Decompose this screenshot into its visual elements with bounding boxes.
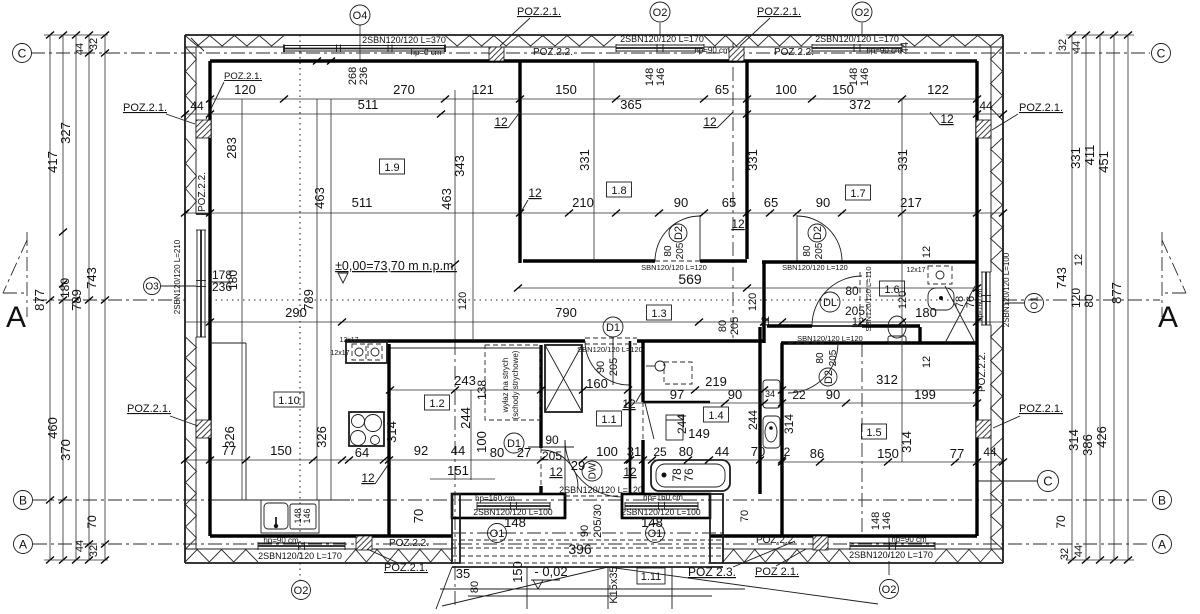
window W2 top: [616, 44, 704, 46]
svg-text:569: 569: [678, 271, 702, 287]
step diagonals: [442, 567, 608, 606]
porch recessed wall band left segment: [452, 494, 565, 518]
svg-text:12: 12: [731, 217, 745, 231]
svg-text:314: 314: [782, 414, 796, 434]
svg-text:205: 205: [675, 242, 686, 259]
svg-text:343: 343: [452, 155, 467, 177]
svg-text:80: 80: [469, 581, 481, 593]
axis C horizontal: [31, 52, 1150, 54]
svg-text:12x17: 12x17: [330, 350, 349, 357]
svg-text:hp=90 cm: hp=90 cm: [866, 46, 902, 55]
room label 1.7: [846, 185, 871, 200]
svg-text:wyłaz na strych: wyłaz na strych: [501, 358, 510, 414]
section line A-A: [33, 299, 185, 301]
svg-text:32: 32: [1057, 39, 1069, 51]
svg-text:1.4: 1.4: [708, 410, 723, 422]
window W4 left 2SBN120/120 L=210: [196, 230, 198, 337]
C leader circle right: [978, 480, 1037, 482]
svg-text:65: 65: [715, 82, 729, 97]
svg-text:32: 32: [88, 545, 100, 557]
svg-text:65: 65: [764, 195, 778, 210]
svg-text:31: 31: [627, 444, 641, 459]
svg-text:35: 35: [456, 566, 470, 581]
svg-text:SBN120/120 L=120: SBN120/120 L=120: [577, 345, 643, 354]
dim row 569: [518, 287, 977, 289]
svg-text:O2: O2: [294, 585, 309, 597]
svg-text:417: 417: [45, 151, 60, 173]
svg-text:77: 77: [950, 446, 964, 461]
svg-text:877: 877: [1109, 282, 1124, 304]
svg-text:90: 90: [595, 361, 607, 373]
svg-text:312: 312: [876, 372, 898, 387]
svg-text:POZ.2.2.: POZ.2.2.: [197, 172, 208, 212]
svg-text:A: A: [19, 537, 27, 551]
stove: [349, 412, 384, 446]
svg-text:80: 80: [815, 352, 826, 364]
svg-text:B: B: [19, 493, 27, 507]
flue block WC: [928, 266, 952, 284]
outer wall right: insulation hatch: [991, 47, 1003, 120]
outer wall left: inner face: [208, 61, 211, 536]
svg-text:12x17: 12x17: [906, 267, 925, 274]
svg-text:789: 789: [69, 289, 84, 311]
svg-text:77: 77: [222, 443, 236, 458]
svg-text:205: 205: [828, 349, 839, 366]
svg-text:150: 150: [510, 561, 525, 583]
svg-text:180: 180: [915, 305, 937, 320]
svg-text:12: 12: [760, 316, 772, 328]
svg-text:160: 160: [586, 376, 608, 391]
left dimension column lines: [49, 35, 51, 560]
axis line vertical x=455: [454, 90, 456, 341]
svg-text:76: 76: [965, 296, 977, 308]
window W1 top 2SBN120/120 L=370: [284, 45, 445, 47]
svg-text:80: 80: [845, 284, 859, 298]
svg-text:314: 314: [1066, 429, 1081, 451]
room 1.5 top wall: [781, 341, 977, 344]
svg-text:2: 2: [784, 445, 791, 459]
svg-text:D2: D2: [823, 370, 835, 384]
svg-text:70: 70: [739, 510, 751, 522]
dim 151: [430, 478, 495, 480]
svg-text:205/30: 205/30: [592, 504, 604, 538]
svg-text:44: 44: [983, 445, 997, 459]
svg-text:511: 511: [358, 97, 379, 112]
wardrobe crossed box: [545, 345, 582, 412]
svg-text:80: 80: [802, 245, 813, 257]
step verticals: [526, 567, 528, 609]
window W6 bottom left: [258, 542, 345, 544]
svg-text:POZ.2.1.: POZ.2.1.: [123, 102, 167, 114]
flue block kitchen: [346, 341, 387, 363]
lintel block POZ.2.1 right lower: [976, 420, 991, 438]
corridor top wall: [523, 259, 655, 262]
dim row y403: [628, 402, 977, 404]
axis A horizontal: [33, 543, 1150, 545]
O1 circle right: [646, 524, 665, 543]
D1 corridor label: [603, 317, 623, 337]
svg-text:C: C: [18, 46, 27, 60]
svg-text:22: 22: [792, 388, 806, 402]
svg-text:POZ.2.1.: POZ.2.1.: [1019, 403, 1063, 415]
svg-text:POZ.2.1.: POZ.2.1.: [757, 6, 801, 18]
svg-text:1.3: 1.3: [651, 308, 666, 320]
wall between rooms 1.8 and 1.7: [745, 61, 748, 259]
outer wall top: outer face: [185, 34, 1003, 36]
axis line vertical x=733: [732, 42, 734, 340]
bathroom left wall: [641, 341, 644, 402]
svg-text:12: 12: [703, 115, 717, 129]
hidden wall lines across niche: [452, 539, 723, 541]
svg-text:463: 463: [312, 187, 327, 209]
svg-text:POZ.2.1.: POZ.2.1.: [517, 6, 561, 18]
svg-text:POZ.2.1.: POZ.2.1.: [127, 403, 171, 415]
svg-text:90: 90: [674, 195, 688, 210]
svg-text:34: 34: [765, 389, 775, 399]
door D2 room 1.5 arc: [788, 343, 838, 393]
porch recessed wall band right segment: [622, 494, 710, 518]
svg-text:372: 372: [849, 97, 871, 112]
svg-text:32: 32: [88, 38, 100, 50]
svg-text:SBN120/120 L=120: SBN120/120 L=120: [797, 334, 863, 343]
svg-text:205: 205: [814, 242, 825, 259]
svg-text:2SBN120/120 L=170: 2SBN120/120 L=170: [258, 551, 342, 561]
svg-text:1.10: 1.10: [278, 395, 299, 407]
lintel block POZ.2.1 left lower: [196, 420, 211, 438]
porch side wall left: [452, 494, 460, 563]
wall between rooms 1.9 and 1.8: [518, 61, 521, 263]
svg-text:44: 44: [1071, 41, 1083, 53]
svg-text:244: 244: [675, 414, 689, 434]
svg-text:44: 44: [74, 43, 86, 55]
svg-text:POZ.2.2.: POZ.2.2.: [389, 538, 429, 549]
svg-text:463: 463: [439, 188, 454, 210]
svg-text:POZ.2.1.: POZ.2.1.: [224, 71, 262, 82]
svg-text:243: 243: [454, 373, 476, 388]
axis O3 left: [144, 278, 161, 295]
svg-text:A: A: [1158, 537, 1166, 551]
svg-text:1.8: 1.8: [611, 185, 626, 197]
svg-text:326: 326: [314, 426, 329, 448]
O1 circle left: [488, 524, 507, 543]
porch entrance door opening: [564, 494, 567, 518]
svg-text:331: 331: [577, 149, 592, 171]
svg-text:25: 25: [653, 445, 667, 459]
kitchen counter bottom band: [210, 499, 350, 501]
door D2 label 1.7: [808, 224, 826, 242]
WC top wall: [762, 260, 977, 263]
svg-text:hp=0 cm: hp=0 cm: [411, 48, 442, 57]
svg-text:12: 12: [1073, 254, 1085, 266]
svg-text:SBN120/120 L=120: SBN120/120 L=120: [782, 263, 848, 272]
svg-text:D1: D1: [507, 438, 521, 450]
shaft cross bracing: [945, 286, 975, 343]
svg-text:138: 138: [475, 380, 489, 400]
svg-text:12: 12: [921, 356, 933, 368]
outer wall right: inner face: [975, 61, 978, 536]
svg-text:460: 460: [45, 417, 60, 439]
washbasin bathroom: [763, 416, 780, 448]
wall right of stairs: [539, 345, 542, 448]
door D1 to room 1.1: arc: [585, 341, 629, 385]
svg-text:426: 426: [1094, 426, 1109, 448]
room 1.1 right wall: [629, 341, 632, 494]
axis B horizontal: [33, 499, 1150, 501]
svg-text:1.2: 1.2: [429, 398, 444, 410]
axis O2 bottom, vertical dotted line: [299, 35, 301, 580]
svg-text:POZ.2.1.: POZ.2.1.: [384, 562, 428, 574]
svg-text:149: 149: [688, 426, 710, 441]
room 1.11 label: [637, 568, 665, 584]
svg-text:POZ.2.2.: POZ.2.2.: [756, 535, 796, 546]
svg-text:O2: O2: [882, 584, 897, 596]
svg-text:- 0,02: - 0,02: [534, 564, 567, 579]
window W7 bottom right: [850, 542, 935, 544]
door DL label: [820, 292, 840, 312]
svg-text:120: 120: [747, 293, 759, 311]
svg-text:±0,00=73,70 m n.p.m.: ±0,00=73,70 m n.p.m.: [335, 259, 457, 273]
dim row y460 kitchen: [185, 459, 628, 461]
room label 1.3: [647, 305, 672, 320]
axis O1 right: [1005, 302, 1024, 304]
svg-text:DL: DL: [823, 297, 837, 309]
svg-text:151: 151: [447, 463, 469, 478]
svg-text:314: 314: [384, 421, 399, 443]
svg-text:90: 90: [579, 525, 591, 537]
svg-text:80: 80: [717, 320, 729, 332]
DW label: [582, 461, 602, 481]
svg-text:1.9: 1.9: [384, 162, 399, 174]
lintel block POZ.2.1 bottom-left: [356, 536, 372, 550]
window W5 right 2SBN120/120 L=100: [981, 272, 983, 325]
svg-text:743: 743: [84, 267, 99, 289]
svg-text:100: 100: [775, 82, 797, 97]
door arc hall: [541, 450, 578, 487]
svg-text:O2: O2: [855, 7, 870, 19]
svg-text:44: 44: [899, 42, 911, 54]
svg-text:70: 70: [411, 509, 426, 523]
svg-text:120: 120: [1069, 288, 1083, 308]
svg-text:386: 386: [1080, 434, 1095, 456]
svg-text:236: 236: [358, 67, 370, 85]
svg-text:C: C: [1043, 474, 1052, 489]
svg-text:2SBN120/120 L=370: 2SBN120/120 L=370: [362, 35, 446, 45]
svg-text:hp=160 cm: hp=160 cm: [643, 493, 683, 502]
axis O4 top: [359, 25, 361, 61]
svg-text:A: A: [1158, 301, 1178, 334]
svg-text:120: 120: [234, 82, 256, 97]
stairs to attic dashed box: [485, 345, 540, 420]
room label 1.8: [607, 182, 632, 197]
svg-text:POZ 2.3.: POZ 2.3.: [688, 565, 736, 579]
svg-text:B: B: [1158, 493, 1166, 507]
axis line vertical x=862 lower: [861, 343, 863, 536]
corridor bottom wall: [345, 339, 585, 342]
svg-text:70: 70: [751, 444, 765, 459]
axis O2 bottom right: [888, 536, 890, 578]
dim row mid y213: [185, 212, 1003, 214]
porch window P1: [477, 502, 550, 504]
svg-text:hp=90 cm: hp=90 cm: [263, 536, 299, 545]
svg-text:O3: O3: [145, 282, 159, 293]
svg-text:331: 331: [1068, 147, 1083, 169]
room label 1.9: [380, 159, 405, 174]
room label 1.2: [425, 395, 450, 410]
left column ticks: [46, 32, 54, 39]
lintel block POZ.2.1 right upper: [976, 120, 991, 138]
svg-text:O2: O2: [653, 7, 668, 19]
dim row 1.5 y462: [782, 461, 1003, 463]
svg-text:396: 396: [568, 541, 592, 557]
svg-text:219: 219: [705, 374, 727, 389]
svg-text:146: 146: [302, 508, 312, 523]
svg-text:148: 148: [641, 515, 663, 530]
svg-text:44: 44: [1073, 545, 1085, 557]
svg-text:12: 12: [361, 471, 375, 485]
svg-text:2SBN120/120 L=170: 2SBN120/120 L=170: [815, 34, 899, 44]
svg-text:451: 451: [1096, 151, 1111, 173]
svg-text:1.1: 1.1: [601, 414, 616, 426]
svg-text:121: 121: [472, 82, 494, 97]
svg-text:44: 44: [715, 444, 729, 459]
washbasin WC: [928, 288, 954, 310]
section triangle left: [3, 240, 27, 293]
svg-text:32: 32: [1059, 548, 1071, 560]
svg-text:90: 90: [816, 195, 830, 210]
room label 1.1: [597, 411, 622, 426]
svg-text:146: 146: [655, 68, 667, 86]
svg-text:283: 283: [224, 137, 239, 159]
svg-text:12: 12: [940, 112, 954, 126]
svg-text:80: 80: [490, 445, 504, 460]
svg-text:2SBN120/120 L=170: 2SBN120/120 L=170: [849, 550, 933, 560]
dim row y322: [185, 321, 1003, 323]
1.2 top wall second line: [390, 347, 541, 349]
steps lines: [440, 588, 745, 590]
room label 1.6: [880, 281, 905, 296]
svg-text:743: 743: [1054, 267, 1069, 289]
svg-text:POZ.2.1.: POZ.2.1.: [1019, 102, 1063, 114]
svg-text:80: 80: [679, 444, 693, 459]
svg-text:210: 210: [572, 195, 594, 210]
svg-text:2SBN120/120 L=170: 2SBN120/120 L=170: [620, 34, 704, 44]
svg-text:1.5: 1.5: [866, 427, 881, 439]
svg-text:80: 80: [1082, 294, 1096, 308]
svg-text:12: 12: [622, 397, 636, 411]
lintel block POZ.2.1 left upper: [196, 120, 211, 138]
svg-text:A: A: [6, 301, 26, 334]
outer wall top: inner face: [210, 59, 977, 62]
svg-text:90: 90: [728, 387, 742, 402]
door D2 label 1.8: [669, 224, 687, 242]
svg-text:C: C: [1157, 46, 1166, 60]
svg-text:511: 511: [352, 195, 373, 210]
axis O2 top right: [861, 23, 863, 35]
svg-text:POZ.2.2.: POZ.2.2.: [977, 352, 988, 392]
svg-text:2SBN120/120 L=100: 2SBN120/120 L=100: [1002, 252, 1011, 327]
svg-text:365: 365: [620, 97, 642, 112]
svg-text:244: 244: [746, 410, 760, 430]
svg-text:97: 97: [670, 387, 684, 402]
washer: [763, 380, 780, 408]
bathtub: [651, 460, 730, 491]
svg-text:44: 44: [74, 540, 86, 552]
svg-text:411: 411: [1082, 145, 1097, 166]
top dim row 1: [210, 98, 977, 100]
svg-text:65: 65: [722, 195, 736, 210]
right dimension column lines: [1071, 35, 1073, 560]
svg-text:120: 120: [457, 292, 469, 310]
svg-text:199: 199: [914, 387, 936, 402]
door D2 room 1.7: leaf and arc: [796, 215, 798, 261]
svg-text:64: 64: [355, 445, 369, 460]
corridor end wall vertical: [762, 261, 765, 343]
svg-text:70: 70: [85, 515, 99, 529]
room 1.5 left wall: [780, 343, 783, 536]
svg-text:80: 80: [663, 245, 674, 257]
door D2 label 1.5: [819, 368, 837, 386]
porch side wall right: [710, 494, 723, 563]
svg-text:O1: O1: [490, 528, 505, 540]
lintel block POZ.2.1 top-left: [489, 47, 504, 61]
outer wall right: outer face: [1002, 35, 1004, 563]
dim row bath bottom y460: [628, 459, 782, 461]
window W3 top: [812, 44, 902, 46]
room label 1.4: [704, 407, 729, 422]
svg-text:86: 86: [810, 446, 824, 461]
dash axis in niche: [452, 532, 723, 534]
svg-text:44: 44: [190, 99, 204, 113]
lintel block POZ.2.1 bottom-right: [813, 536, 828, 550]
porch steps outer edge: [452, 566, 723, 568]
svg-text:244: 244: [458, 407, 473, 429]
svg-text:hp=160 cm: hp=160 cm: [977, 289, 984, 321]
top dim row 2: [185, 113, 1003, 115]
entrance door DW arc: [565, 440, 622, 497]
shower: [664, 362, 692, 384]
door D2 room 1.8: leaf and arc: [699, 215, 701, 261]
svg-text:146: 146: [859, 68, 871, 86]
bath cabinet: [666, 415, 683, 440]
outer wall top: insulation hatch: [185, 36, 284, 47]
svg-text:100: 100: [596, 444, 618, 459]
WC bottom wall: [767, 324, 812, 327]
svg-text:(schody strychowe): (schody strychowe): [511, 350, 520, 419]
axis O2 top left: [659, 23, 661, 35]
svg-text:150: 150: [270, 443, 292, 458]
svg-text:POZ 2.1.: POZ 2.1.: [755, 566, 799, 578]
svg-text:90: 90: [545, 433, 559, 447]
svg-text:122: 122: [927, 82, 949, 97]
svg-text:12: 12: [528, 186, 542, 200]
dim row y390 bath: [390, 389, 977, 391]
lintel block POZ.2.1 top-right: [729, 47, 744, 61]
svg-text:146: 146: [881, 512, 893, 530]
svg-text:92: 92: [414, 443, 428, 458]
svg-text:POZ.2.2.: POZ.2.2.: [533, 47, 573, 58]
svg-text:205: 205: [542, 449, 562, 463]
kitchen sink: [261, 500, 319, 533]
bathroom right wall: [758, 327, 761, 494]
kitchen counter left band: [245, 343, 247, 500]
toilet WC 1.6: [888, 316, 906, 338]
room label 1.5: [862, 424, 887, 439]
outer wall left: insulation hatch: [186, 47, 197, 120]
room label 1.10: [274, 392, 304, 407]
svg-text:hp=90 cm: hp=90 cm: [891, 535, 927, 544]
svg-text:DW: DW: [588, 462, 599, 479]
svg-text:12: 12: [921, 246, 933, 258]
